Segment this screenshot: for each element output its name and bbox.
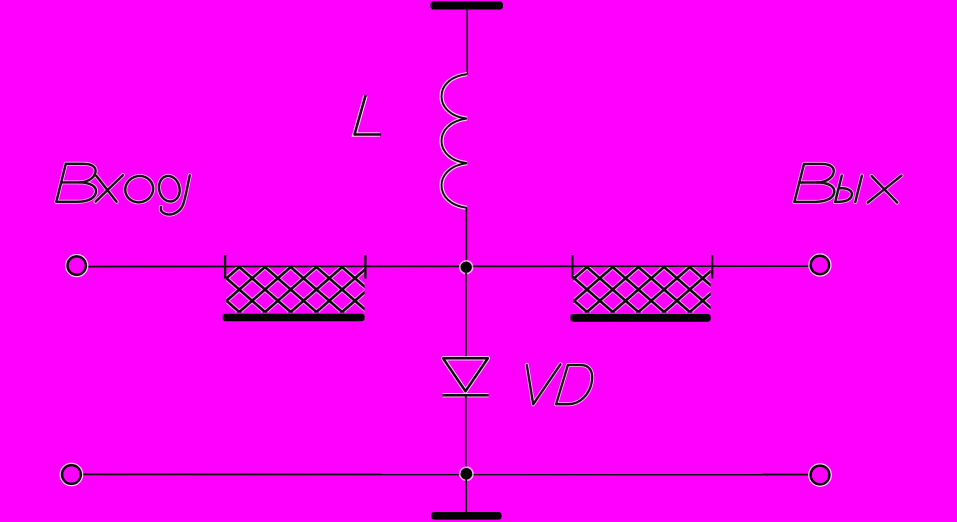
wire diode to bottom wire: [465, 395, 467, 474]
input terminal circle: [68, 256, 86, 274]
wire bottom node to ground bar: [465, 474, 467, 512]
diode VD: [443, 358, 489, 395]
filter section box right : right tick: [711, 255, 713, 279]
label VD: [527, 364, 592, 404]
wire inductor to node: [465, 208, 467, 267]
filter section box right : bottom plate: [570, 314, 710, 322]
junction node on main wire: [460, 261, 473, 274]
filter section box left : bottom plate: [223, 314, 365, 322]
bottom horizontal wire: [82, 473, 810, 475]
label Вых: [794, 164, 901, 203]
label L: [355, 96, 381, 135]
inductor L: [442, 74, 468, 208]
ground rail bar (bottom): [431, 512, 501, 520]
label Вход: [56, 164, 190, 215]
wire top bar to inductor: [466, 9, 468, 74]
supply rail bar (top): [430, 1, 503, 9]
filter section box right : left tick: [571, 255, 573, 279]
filter section box right : hatch: [573, 267, 710, 313]
filter section box left : hatch: [226, 267, 364, 313]
output terminal circle: [811, 256, 829, 274]
bottom-left terminal circle: [62, 465, 81, 484]
filter section box left : left tick: [224, 255, 226, 279]
main horizontal wire (input to output): [87, 265, 811, 268]
filter section box left : right tick: [364, 255, 366, 279]
bottom-right terminal circle: [811, 466, 830, 485]
wire node to diode: [465, 267, 467, 358]
junction node on bottom wire: [460, 467, 473, 480]
